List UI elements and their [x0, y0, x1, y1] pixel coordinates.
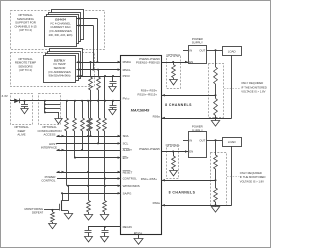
svg-text:MSCL: MSCL	[123, 68, 131, 72]
svg-text:MAX16049: MAX16049	[131, 108, 150, 112]
svg-text:IF THE MONITORED: IF THE MONITORED	[241, 85, 267, 89]
svg-text:RS6a: RS6a	[153, 115, 161, 119]
svg-text:EN: EN	[189, 60, 193, 64]
svg-text:(UP TO 4): (UP TO 4)	[19, 68, 32, 72]
svg-text:INTERFACE: INTERFACE	[41, 146, 57, 150]
svg-text:(UP TO 4): (UP TO 4)	[19, 28, 32, 32]
svg-text:MSDA: MSDA	[123, 60, 131, 64]
svg-text:OUT: OUT	[199, 48, 205, 52]
svg-text:SA/PG: SA/PG	[123, 191, 133, 195]
svg-text:SUPPLY: SUPPLY	[192, 128, 203, 132]
svg-text:RS10+–RS15+: RS10+–RS15+	[138, 92, 158, 96]
svg-text:RESET: RESET	[123, 171, 133, 175]
svg-text:SCL: SCL	[123, 142, 129, 146]
svg-text:DEFEAT: DEFEAT	[32, 211, 43, 215]
svg-text:90h/92h/94h/96h): 90h/92h/94h/96h)	[49, 74, 71, 78]
svg-text:CONTROL: CONTROL	[123, 177, 138, 181]
svg-text:IN: IN	[189, 48, 192, 52]
svg-text:VOLTAGE IS > 1.8V: VOLTAGE IS > 1.8V	[241, 90, 265, 94]
svg-text:P3V3: P3V3	[123, 74, 130, 78]
svg-text:LOAD: LOAD	[228, 49, 236, 53]
svg-text:ALERT: ALERT	[123, 148, 132, 152]
svg-text:OUT: OUT	[199, 138, 205, 142]
svg-text:PSEN10–PSEN15: PSEN10–PSEN15	[136, 61, 160, 65]
svg-text:EN: EN	[189, 150, 193, 154]
svg-text:VOLTAGE IS > 1.8V: VOLTAGE IS > 1.8V	[240, 179, 264, 183]
svg-text:8 CHANNELS: 8 CHANNELS	[169, 190, 196, 194]
svg-text:ONLY REQUIRED: ONLY REQUIRED	[241, 81, 263, 85]
svg-text:CONTROL: CONTROL	[41, 179, 56, 183]
svg-text:SUPPLY: SUPPLY	[192, 40, 203, 44]
svg-text:OPTIONAL: OPTIONAL	[166, 53, 181, 57]
svg-text:ONLY REQUIRED: ONLY REQUIRED	[240, 171, 262, 175]
svg-text:20h, 60h, A0h, E0h): 20h, 60h, A0h, E0h)	[49, 33, 73, 37]
svg-text:REGIN: REGIN	[123, 225, 132, 229]
svg-text:OPTIONAL: OPTIONAL	[166, 143, 181, 147]
svg-text:RS0+–RS5+: RS0+–RS5+	[141, 177, 158, 181]
svg-text:LOAD: LOAD	[228, 140, 236, 144]
svg-text:RS0a: RS0a	[153, 201, 161, 205]
svg-text:PSEN0–PSEN5: PSEN0–PSEN5	[139, 147, 160, 151]
svg-text:ALIVE: ALIVE	[17, 133, 25, 137]
svg-text:WP/MONDIS: WP/MONDIS	[123, 184, 140, 188]
svg-text:SDA: SDA	[123, 134, 129, 138]
svg-text:8 CHANNELS: 8 CHANNELS	[165, 103, 192, 107]
svg-text:IN: IN	[189, 138, 192, 142]
svg-text:ACCESS: ACCESS	[44, 133, 56, 137]
svg-text:(I²C ADDRESSES: (I²C ADDRESSES	[49, 29, 72, 33]
svg-text:IF THE MONITORED: IF THE MONITORED	[240, 175, 266, 179]
svg-text:3.3V: 3.3V	[2, 94, 9, 98]
